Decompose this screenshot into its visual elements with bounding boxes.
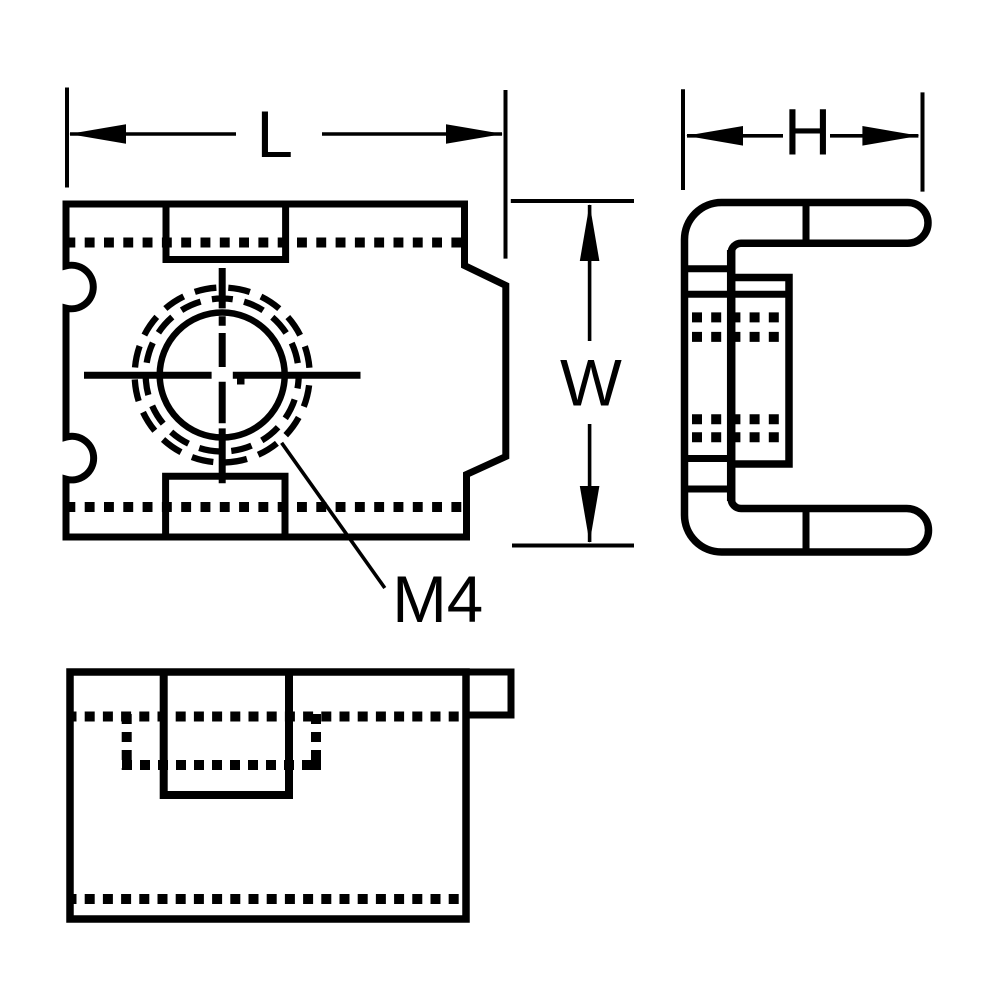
dimension W arrow down [580,486,600,543]
dimension L arrow left [69,124,126,144]
bottom view dotted row 1 [67,712,463,722]
svg-text:W: W [560,347,622,420]
dimension H line left segment [687,134,783,138]
dimension W extension line bottom [512,544,634,548]
dimension W arrow up [580,204,600,261]
bottom view hidden dotted vertical left [122,714,132,770]
top view lower dotted row [65,502,462,512]
side view seam line 3 [685,455,732,462]
dimension H arrow right [862,126,919,146]
bottom view corner tab [466,672,511,715]
svg-text:M4: M4 [392,563,483,636]
side view seam line 1 [685,265,732,272]
thread dashed ring inner [146,299,299,452]
svg-text:H: H [784,95,831,168]
dimension H arrow left [686,126,743,146]
side view inner wall [727,250,736,501]
dimension L extension line right [504,90,508,259]
side view dotted row 4 [692,432,779,442]
bottom view outline [70,672,466,919]
side view dotted row 3 [692,414,779,424]
bottom view hidden corner dot [311,754,321,771]
hole circle [160,313,285,438]
side view outer profile [685,203,929,553]
dimension W line lower segment [588,424,592,542]
top view plate outline [66,204,506,537]
top view lower tab [166,476,285,537]
side view seam line 4 [685,486,732,493]
top view upper tab [166,204,286,260]
dimension W extension line top [511,199,634,203]
dimension L extension line left [65,88,69,188]
side view nut body [731,278,789,465]
side view top arm divider [803,203,810,244]
dimension L line right segment [322,132,502,136]
dimension L line left segment [70,132,236,136]
centerline tick [237,378,245,384]
dimension L arrow right [446,124,503,144]
thread dashed ring outer [135,288,310,463]
horizontal centerline [84,372,361,379]
side view dotted row 2 [692,332,779,342]
vertical centerline [219,268,226,483]
dimension W line upper segment [588,205,592,341]
dimension H extension line right [921,92,925,191]
side view seam line 2 [685,291,790,298]
svg-text:L: L [257,98,293,171]
top view upper dotted row [65,238,462,248]
side view dotted row 1 [692,312,779,322]
bottom view folded tab [164,672,289,795]
bottom view hidden dotted row [122,760,321,770]
dimension H line right segment [830,134,918,138]
dimension H extension line left [681,89,685,190]
bottom view hidden dotted vertical right [311,714,321,770]
leader line M4 [282,443,385,588]
bottom view dotted row 2 [67,894,463,904]
side view bottom arm divider [803,509,810,553]
